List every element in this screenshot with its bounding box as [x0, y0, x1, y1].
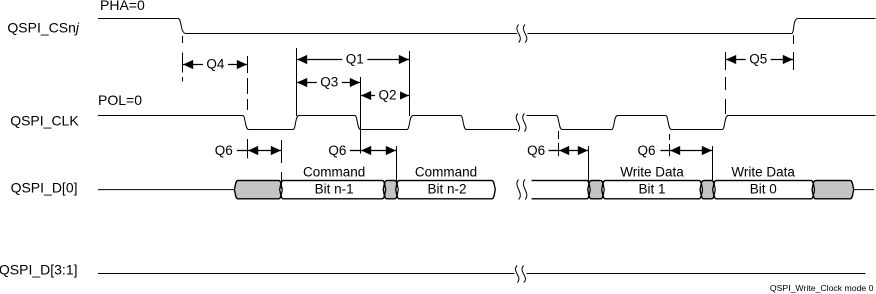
- svg-text:Q6: Q6: [527, 143, 545, 158]
- svg-text:Q5: Q5: [749, 51, 767, 66]
- break squiggle on QSPI_CLK: [516, 114, 526, 132]
- break squiggle on QSPI_CSnj: [517, 25, 527, 43]
- svg-text:QSPI_CLK: QSPI_CLK: [10, 113, 79, 129]
- marker Q6-3 right x589: [588, 146, 590, 182]
- dimension arrow Q6 1: [215, 143, 282, 158]
- svg-text:QSPI_D[3:1]: QSPI_D[3:1]: [0, 262, 78, 278]
- marker Q6-1 right x281: [281, 140, 283, 189]
- dimension arrow Q6 2: [328, 143, 396, 158]
- marker at CLK fall1 x248: [247, 56, 249, 158]
- svg-text:POL=0: POL=0: [98, 92, 142, 108]
- marker Q6-3 left x558: [558, 131, 560, 156]
- wire QSPI_CSnj waveform: [98, 19, 876, 34]
- break squiggle on QSPI_D[0]: [517, 180, 527, 200]
- svg-text:Bit n-2: Bit n-2: [427, 182, 466, 197]
- svg-text:Q2: Q2: [378, 87, 396, 102]
- svg-text:Q6: Q6: [215, 143, 233, 158]
- dimension arrow Q5: [726, 51, 794, 66]
- dimension arrow Q6 3: [527, 143, 588, 158]
- svg-text:QSPI_CSnj: QSPI_CSnj: [7, 20, 79, 36]
- svg-text:Bit n-1: Bit n-1: [315, 182, 354, 197]
- bus segment Command Bit n-2: [396, 181, 496, 199]
- wire QSPI_D[0] tail line: [854, 189, 874, 191]
- svg-text:Q1: Q1: [346, 51, 364, 66]
- marker at CLK rise1 x296: [296, 48, 298, 116]
- svg-text:QSPI_D[0]: QSPI_D[0]: [11, 180, 78, 196]
- bus segment open after break: [532, 181, 591, 199]
- svg-text:Bit 0: Bit 0: [750, 182, 777, 197]
- svg-text:Q3: Q3: [320, 74, 338, 89]
- svg-text:Write Data: Write Data: [620, 165, 684, 180]
- bus segment Write Data Bit 1: [602, 181, 703, 199]
- marker at CLK rise2 x409: [409, 51, 411, 116]
- svg-text:Write Data: Write Data: [731, 165, 795, 180]
- marker at CSn rise x794: [793, 35, 795, 70]
- bus segment gray transition 2: [588, 181, 605, 199]
- svg-text:Bit 1: Bit 1: [638, 182, 665, 197]
- svg-text:Q6: Q6: [637, 143, 655, 158]
- bus segment gray transition 3: [700, 181, 715, 199]
- marker at CSn fall x182: [182, 36, 184, 82]
- svg-text:Command: Command: [303, 165, 365, 180]
- svg-text:QSPI_Write_Clock mode 0: QSPI_Write_Clock mode 0: [770, 283, 874, 293]
- svg-text:Command: Command: [415, 165, 477, 180]
- bus segment Write Data Bit 0: [713, 181, 815, 199]
- wire QSPI_D[3:1]: [98, 273, 866, 275]
- bus segment gray undefined 1: [234, 181, 282, 199]
- dimension arrow Q1: [297, 51, 410, 66]
- marker Q6-4 left x670: [669, 134, 671, 156]
- dimension arrow Q6 4: [637, 143, 712, 158]
- dimension arrow Q4: [183, 56, 248, 71]
- dimension arrow Q3: [297, 74, 361, 89]
- svg-text:Q6: Q6: [328, 143, 346, 158]
- marker Q6-2 right x396: [396, 146, 398, 181]
- bus segment gray undefined end: [812, 181, 854, 199]
- bus segment Command Bit n-1: [280, 181, 386, 199]
- svg-text:PHA=0: PHA=0: [100, 0, 145, 13]
- marker at CLK rise4 x725: [725, 52, 727, 114]
- dimension arrow Q2: [361, 87, 410, 102]
- break squiggle on QSPI_D[3:1]: [515, 266, 525, 283]
- bus segment gray transition 1: [383, 181, 398, 199]
- wire QSPI_CLK waveform: [98, 116, 876, 130]
- marker Q6-4 right x713: [712, 146, 714, 181]
- marker at CLK fall2 x360: [360, 77, 362, 154]
- wire QSPI_D[0] lead line: [98, 189, 235, 191]
- bus outlines overlay: [234, 181, 853, 199]
- svg-text:Q4: Q4: [206, 56, 225, 71]
